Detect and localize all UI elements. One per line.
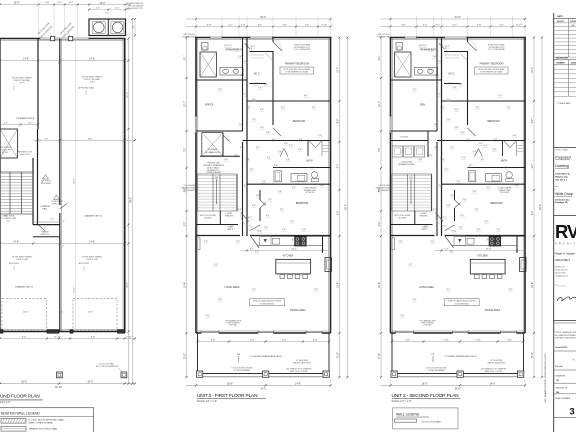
svg-text:3′-0″: 3′-0″ bbox=[455, 109, 459, 111]
svg-text:5′-8″: 5′-8″ bbox=[278, 191, 282, 193]
svg-text:3′-4″: 3′-4″ bbox=[475, 209, 479, 211]
ground plan pier 1 bbox=[51, 37, 55, 41]
svg-text:BATH: BATH bbox=[501, 160, 507, 163]
svg-text:WIRE OR CABLE RAILING SYSTEM: WIRE OR CABLE RAILING SYSTEM bbox=[253, 300, 282, 303]
svg-text:34′-0″: 34′-0″ bbox=[260, 16, 266, 19]
unit3 stair treads bbox=[198, 174, 238, 211]
unit2 left wall window bbox=[389, 116, 391, 133]
svg-text:2′-8″: 2′-8″ bbox=[204, 241, 208, 243]
ground plan bottom wall bbox=[0, 331, 125, 333]
svg-text:WALL LEGEND: WALL LEGEND bbox=[396, 412, 420, 416]
svg-text:DINING AREA: DINING AREA bbox=[485, 309, 501, 312]
svg-text:5′-8″: 5′-8″ bbox=[419, 159, 423, 161]
svg-text:12′-4″: 12′-4″ bbox=[74, 287, 76, 293]
svg-text:8′-1″: 8′-1″ bbox=[185, 56, 187, 61]
unit3 corner pantry bbox=[251, 236, 259, 248]
svg-text:19′-4″: 19′-4″ bbox=[379, 282, 381, 288]
svg-text:5′-8″: 5′-8″ bbox=[320, 185, 324, 187]
svg-text:16 O.C. STAGGERED: 16 O.C. STAGGERED bbox=[488, 48, 506, 51]
svg-text:3′-10″: 3′-10″ bbox=[321, 25, 327, 27]
svg-text:APPROVED: APPROVED bbox=[9, 262, 20, 265]
unit2 bath tub bbox=[469, 171, 476, 182]
svg-text:19′-4″: 19′-4″ bbox=[532, 282, 534, 288]
unit3 hall wall east bbox=[242, 142, 244, 236]
svg-text:NO HEADROOM: NO HEADROOM bbox=[205, 151, 220, 154]
unit2 laundry boxes bbox=[392, 146, 402, 157]
unit3 kitchen east wall bbox=[322, 236, 324, 253]
title block date table bbox=[554, 17, 576, 19]
unit3 bedroom2 door bbox=[273, 128, 281, 136]
svg-text:2′-6″: 2′-6″ bbox=[433, 56, 437, 58]
svg-text:3′-4″: 3′-4″ bbox=[473, 151, 477, 153]
svg-text:5′-8″: 5′-8″ bbox=[509, 289, 513, 291]
svg-text:2′-8″: 2′-8″ bbox=[459, 84, 463, 86]
svg-text:9′-2″: 9′-2″ bbox=[250, 249, 254, 251]
unit2 stair walls bbox=[431, 174, 433, 211]
svg-text:3′-4″: 3′-4″ bbox=[280, 209, 284, 211]
svg-text:3′-4″: 3′-4″ bbox=[299, 139, 303, 141]
svg-text:6′-4″: 6′-4″ bbox=[452, 25, 457, 27]
svg-text:APPROVED: APPROVED bbox=[79, 262, 90, 265]
foundation legend box bbox=[0, 408, 94, 432]
svg-text:6′-1″: 6′-1″ bbox=[443, 217, 447, 219]
ground plan right dim col 2 bbox=[131, 19, 133, 384]
unit3 deck bottom rail bbox=[198, 373, 330, 375]
svg-text:6′-1″: 6′-1″ bbox=[304, 95, 308, 97]
svg-text:9′-0″: 9′-0″ bbox=[91, 337, 96, 339]
svg-text:6′-8″: 6′-8″ bbox=[401, 25, 406, 27]
svg-text:2′-8″: 2′-8″ bbox=[252, 205, 256, 207]
ground plan garage mid dim row bbox=[33, 139, 135, 141]
svg-text:7′-10″: 7′-10″ bbox=[126, 337, 132, 339]
svg-text:5′-8″: 5′-8″ bbox=[515, 185, 519, 187]
svg-text:6′-1″: 6′-1″ bbox=[206, 315, 210, 317]
unit2 kitchen range bbox=[489, 237, 501, 246]
svg-text:3′-0″: 3′-0″ bbox=[476, 107, 480, 109]
svg-text:ISSUE: ISSUE bbox=[570, 21, 576, 23]
svg-text:9′-2″: 9′-2″ bbox=[445, 249, 449, 251]
svg-text:5′-8″: 5′-8″ bbox=[461, 132, 465, 134]
unit3 kitchen island bbox=[276, 259, 311, 274]
svg-text:AZEK TRIM - TYPICAL: AZEK TRIM - TYPICAL bbox=[290, 370, 308, 373]
svg-text:8′-6″: 8′-6″ bbox=[185, 188, 187, 193]
svg-text:19′-4″: 19′-4″ bbox=[185, 282, 187, 288]
svg-text:AZEK TRIM - TYPICAL: AZEK TRIM - TYPICAL bbox=[485, 370, 503, 373]
svg-text:Paradigm, OK: Paradigm, OK bbox=[555, 202, 568, 204]
ground plan mid dim row bbox=[0, 243, 125, 245]
unit3 bath door arc bbox=[244, 43, 250, 49]
svg-text:3′-4″: 3′-4″ bbox=[282, 229, 286, 231]
svg-text:4′-2″: 4′-2″ bbox=[446, 46, 450, 48]
svg-text:SCALE: 1/4″ = 1′-0″: SCALE: 1/4″ = 1′-0″ bbox=[197, 400, 217, 403]
svg-text:18′-0″: 18′-0″ bbox=[87, 382, 93, 384]
svg-text:for:: for: bbox=[555, 186, 558, 188]
svg-text:WIRE OR CABLE RAILING SYSTEM: WIRE OR CABLE RAILING SYSTEM bbox=[448, 300, 477, 303]
svg-text:3′-0″: 3′-0″ bbox=[228, 45, 232, 47]
svg-text:WOOD STUD WALL: WOOD STUD WALL bbox=[422, 420, 443, 423]
unit3 kitchen counter edge bbox=[258, 244, 323, 246]
ground plan storage dim row bbox=[0, 124, 38, 126]
unit3 wic shelf lines bbox=[251, 54, 265, 56]
unit2 stair treads bbox=[392, 174, 432, 211]
unit3 bedroom3 closet bbox=[259, 190, 261, 200]
unit2 bedroom2 west wall bbox=[467, 101, 469, 125]
svg-text:2′-8″: 2′-8″ bbox=[133, 25, 135, 29]
svg-text:ARCHITECT: ARCHITECT bbox=[555, 258, 570, 262]
svg-text:2′-6″: 2′-6″ bbox=[463, 199, 467, 201]
svg-text:5′-8″: 5′-8″ bbox=[314, 289, 318, 291]
unit3 bath/office wall bbox=[196, 79, 247, 81]
svg-text:3′-0″: 3′-0″ bbox=[451, 195, 455, 197]
svg-text:rhva@gmail.com: rhva@gmail.com bbox=[555, 275, 568, 278]
unit2 bottom dim row bbox=[381, 384, 527, 386]
unit2 bath south wall bbox=[442, 183, 526, 185]
svg-text:ACCESS: ACCESS bbox=[399, 216, 407, 219]
architect signature bbox=[557, 296, 576, 301]
svg-text:BEDROOM: BEDROOM bbox=[296, 202, 308, 205]
svg-text:PO Box 721: PO Box 721 bbox=[555, 267, 564, 269]
svg-text:6′-1″: 6′-1″ bbox=[267, 157, 271, 159]
svg-text:3′-4″: 3′-4″ bbox=[447, 99, 451, 101]
svg-text:SCALE: 1/4″ = 1′-0″: SCALE: 1/4″ = 1′-0″ bbox=[392, 400, 412, 403]
svg-text:TO BE DESIGNED: TO BE DESIGNED bbox=[260, 303, 275, 305]
svg-text:16′-2″: 16′-2″ bbox=[100, 3, 106, 5]
svg-text:143 E. White St,: 143 E. White St, bbox=[555, 173, 570, 176]
unit3 island stools bbox=[280, 275, 285, 279]
svg-text:3′-0″: 3′-0″ bbox=[485, 221, 489, 223]
svg-text:9′-8″: 9′-8″ bbox=[282, 340, 287, 342]
svg-text:34′-0″: 34′-0″ bbox=[260, 389, 266, 391]
svg-text:3′-0″: 3′-0″ bbox=[469, 165, 473, 167]
svg-text:2′-8″: 2′-8″ bbox=[459, 227, 463, 229]
svg-text:UTILITY: UTILITY bbox=[401, 137, 409, 139]
unit2 deck dim row bbox=[392, 341, 524, 343]
svg-text:2′-6″: 2′-6″ bbox=[268, 199, 272, 201]
svg-text:6′-1″: 6′-1″ bbox=[266, 215, 270, 217]
svg-text:4′-2″: 4′-2″ bbox=[256, 147, 260, 149]
svg-text:4′-2″: 4′-2″ bbox=[435, 147, 439, 149]
svg-text:6′-1″: 6′-1″ bbox=[436, 75, 440, 77]
unit2 wic closet diagonal bbox=[460, 53, 468, 61]
ground plan hall west wall bbox=[32, 158, 34, 225]
svg-text:UNIT 2: UNIT 2 bbox=[422, 229, 428, 231]
ground plan stairs bbox=[0, 172, 33, 214]
svg-text:A R C H I T E C T: A R C H I T E C T bbox=[555, 242, 576, 245]
svg-text:14′-0″: 14′-0″ bbox=[23, 312, 29, 314]
svg-text:CHECKED BY: CHECKED BY bbox=[555, 388, 568, 390]
svg-text:2′-8″: 2′-8″ bbox=[479, 143, 483, 145]
svg-text:2′-8″: 2′-8″ bbox=[439, 61, 443, 63]
svg-text:10′-7″: 10′-7″ bbox=[185, 101, 187, 107]
unit3 closet double doors bbox=[309, 141, 316, 148]
svg-text:NOTE: EXPOSED CEILING BEAM: NOTE: EXPOSED CEILING BEAM bbox=[284, 68, 311, 71]
svg-text:NOTE: EXPOSED CEILING BEAM: NOTE: EXPOSED CEILING BEAM bbox=[478, 68, 505, 71]
svg-text:2′-6″: 2′-6″ bbox=[310, 167, 314, 169]
ground plan garage door jambs bbox=[0, 330, 3, 334]
ground plan gyp note lower bbox=[54, 195, 60, 200]
svg-text:5′-8″: 5′-8″ bbox=[258, 231, 262, 233]
svg-text:UND FLOOR PLAN: UND FLOOR PLAN bbox=[0, 393, 40, 399]
unit3 right dim column inner bbox=[339, 38, 341, 378]
svg-text:4′-2″: 4′-2″ bbox=[234, 49, 238, 51]
svg-text:W/ GAP MEMBRANE: W/ GAP MEMBRANE bbox=[234, 369, 251, 372]
svg-text:14′-6″: 14′-6″ bbox=[13, 242, 19, 244]
svg-text:10′-0″: 10′-0″ bbox=[14, 3, 20, 5]
ground plan bottom dim long bbox=[0, 383, 135, 385]
svg-text:3′-0″: 3′-0″ bbox=[115, 8, 119, 10]
svg-text:3′-4″: 3′-4″ bbox=[457, 181, 461, 183]
svg-text:2′-8″: 2′-8″ bbox=[441, 159, 445, 161]
ground plan gyp note upper bbox=[43, 175, 49, 180]
svg-text:FIRE DOOR: FIRE DOOR bbox=[52, 203, 62, 205]
svg-text:DRAWN BY: DRAWN BY bbox=[555, 374, 566, 377]
svg-text:4′-2″: 4′-2″ bbox=[244, 185, 248, 187]
unit2 corner pantry bbox=[445, 236, 453, 248]
unit3 bedroom2 west wall bbox=[272, 101, 274, 125]
unit2 closet double doors bbox=[504, 141, 511, 148]
svg-text:2′-8″: 2′-8″ bbox=[230, 225, 234, 227]
unit2 exterior wall left bbox=[390, 38, 392, 334]
svg-text:Ralph H. Vaughn: Ralph H. Vaughn bbox=[555, 251, 575, 255]
svg-text:IN CEILING: IN CEILING bbox=[306, 192, 316, 194]
svg-text:5′-8″: 5′-8″ bbox=[234, 155, 238, 157]
svg-text:6′-1″: 6′-1″ bbox=[250, 169, 254, 171]
unit3 right dim column overall bbox=[347, 38, 349, 378]
unit3 closet row wall bbox=[196, 224, 238, 226]
svg-text:14′-6″: 14′-6″ bbox=[490, 383, 496, 385]
svg-text:4′-2″: 4′-2″ bbox=[423, 25, 428, 27]
svg-text:5′-0″: 5′-0″ bbox=[185, 222, 187, 227]
svg-text:SHELVES: SHELVES bbox=[420, 215, 429, 217]
unit2 right dim column inner bbox=[533, 38, 535, 378]
svg-text:COVERED FIBERGLASS DECK: COVERED FIBERGLASS DECK bbox=[250, 355, 282, 358]
svg-text:3′-4″: 3′-4″ bbox=[312, 107, 316, 109]
unit2 primary bedroom door bbox=[468, 42, 477, 51]
svg-text:8′-10″: 8′-10″ bbox=[532, 352, 534, 358]
unit2 dim extension lines bbox=[390, 16, 392, 38]
svg-text:34′-0″: 34′-0″ bbox=[455, 389, 461, 391]
svg-text:Harrah Park, NJ: Harrah Park, NJ bbox=[555, 269, 567, 272]
svg-text:13′-4″: 13′-4″ bbox=[291, 248, 296, 250]
svg-text:(TYP): (TYP) bbox=[90, 81, 95, 83]
svg-text:STORAGE: STORAGE bbox=[208, 148, 218, 151]
unit3 stair direction arrow bbox=[216, 179, 218, 204]
unit2 bath door arc bbox=[439, 43, 445, 49]
svg-text:DEN: DEN bbox=[420, 104, 425, 107]
unit3 front wall bbox=[196, 332, 331, 334]
svg-text:5′-8″: 5′-8″ bbox=[473, 191, 477, 193]
foundation legend entry 2 swatch bbox=[1, 427, 26, 432]
unit2 bedroom3 south wall bbox=[455, 235, 526, 237]
unit2 railing note box bbox=[444, 299, 479, 306]
unit2 kitchen counter edge bbox=[452, 244, 517, 246]
ground plan right wall bbox=[124, 39, 126, 334]
svg-text:3′-4″: 3′-4″ bbox=[262, 181, 266, 183]
svg-text:AND COVER (TYP): AND COVER (TYP) bbox=[127, 7, 143, 10]
svg-text:RAILING (CABLE/STD): RAILING (CABLE/STD) bbox=[488, 362, 506, 365]
svg-text:2′-6″: 2′-6″ bbox=[413, 89, 417, 91]
unit3 office south wall bbox=[196, 130, 243, 132]
svg-text:405.627.5500: 405.627.5500 bbox=[555, 273, 565, 275]
svg-text:PRIMARY BEDROOM: PRIMARY BEDROOM bbox=[480, 63, 504, 66]
svg-text:4′-2″: 4′-2″ bbox=[409, 264, 413, 266]
svg-text:(GARAGE UNIT 2): (GARAGE UNIT 2) bbox=[84, 215, 102, 218]
unit3 deck side rails bbox=[197, 333, 199, 374]
unit3 closet door left bbox=[280, 149, 284, 157]
svg-text:5′-8″: 5′-8″ bbox=[453, 231, 457, 233]
svg-text:6′-1″: 6′-1″ bbox=[248, 217, 252, 219]
svg-text:3′-4″: 3′-4″ bbox=[507, 107, 511, 109]
svg-text:3′-4″: 3′-4″ bbox=[487, 239, 491, 241]
svg-text:3: 3 bbox=[569, 407, 574, 418]
unit2 island stools bbox=[475, 275, 480, 279]
svg-text:34′-0″: 34′-0″ bbox=[455, 16, 461, 19]
unit2 primary bath toilet bbox=[396, 43, 403, 51]
title block project section top line bbox=[554, 146, 576, 148]
svg-text:3′-10″: 3′-10″ bbox=[516, 25, 522, 27]
unit3 bath south wall bbox=[247, 183, 331, 185]
svg-text:REVISIONS: REVISIONS bbox=[556, 57, 568, 59]
ground plan bottom dim row1 bbox=[0, 338, 135, 340]
unit2 exterior wall right bbox=[524, 38, 526, 334]
svg-text:2′-6″: 2′-6″ bbox=[239, 124, 243, 126]
svg-text:4′-2″: 4′-2″ bbox=[439, 185, 443, 187]
svg-text:5′-8″: 5′-8″ bbox=[224, 159, 228, 161]
svg-text:59′-2″: 59′-2″ bbox=[540, 204, 542, 210]
svg-text:2′-6″: 2′-6″ bbox=[447, 119, 451, 121]
svg-text:16 O.C. STAGGERED: 16 O.C. STAGGERED bbox=[294, 48, 312, 51]
unit3 storage no-headroom box bbox=[202, 133, 223, 156]
svg-text:UNIT 3: UNIT 3 bbox=[227, 229, 233, 231]
unit3 primary bath toilet bbox=[202, 43, 209, 51]
svg-text:3′-0″: 3′-0″ bbox=[419, 45, 423, 47]
title block logo section line bbox=[554, 215, 576, 217]
svg-text:12′-7″: 12′-7″ bbox=[532, 67, 534, 73]
unit3 storage door bbox=[222, 133, 224, 156]
svg-text:2′-8″: 2′-8″ bbox=[399, 241, 403, 243]
svg-text:DINING AREA: DINING AREA bbox=[290, 309, 306, 312]
unit3 wic walls bbox=[250, 51, 274, 53]
svg-text:5′-8″: 5′-8″ bbox=[266, 132, 270, 134]
svg-text:5′-4″: 5′-4″ bbox=[305, 25, 310, 27]
svg-text:TO BE WRAPPED IN CEDAR: TO BE WRAPPED IN CEDAR bbox=[480, 71, 503, 74]
unit2 top dimension row segments bbox=[381, 26, 527, 28]
unit2 kitchen counter wall bbox=[391, 235, 435, 237]
unit2 bath toilet bbox=[506, 172, 512, 178]
svg-text:Unit 201 & 3: Unit 201 & 3 bbox=[555, 179, 567, 182]
svg-text:3′-0″: 3′-0″ bbox=[274, 165, 278, 167]
svg-text:04/06/21: 04/06/21 bbox=[557, 20, 564, 23]
unit2 deck side rails bbox=[391, 333, 393, 374]
svg-text:8″ C.M.U. BLOCK WITH DUR-O-WAL: 8″ C.M.U. BLOCK WITH DUR-O-WALL bbox=[29, 419, 66, 422]
svg-text:9′-8″: 9′-8″ bbox=[444, 340, 449, 342]
svg-text:2′-6″: 2′-6″ bbox=[505, 167, 509, 169]
unit2 bedroom3 closet bbox=[454, 190, 456, 200]
svg-text:6′-1″: 6′-1″ bbox=[241, 75, 245, 77]
unit2 bedroom2 door bbox=[468, 128, 476, 136]
svg-text:6′-1″: 6′-1″ bbox=[445, 169, 449, 171]
unit2 utility walls bbox=[391, 140, 429, 142]
unit3 bedroom2 south wall bbox=[243, 140, 331, 142]
unit2 primary bath shower bbox=[395, 52, 412, 77]
ground plan light well right circle bbox=[111, 22, 124, 34]
svg-text:5′-8″: 5′-8″ bbox=[429, 155, 433, 157]
unit2 bath/office wall bbox=[391, 79, 442, 81]
svg-text:2′-6″: 2′-6″ bbox=[434, 124, 438, 126]
unit2 deck bottom rail bbox=[392, 373, 524, 375]
unit3 primary bedroom door bbox=[273, 42, 282, 51]
svg-text:W/ CMU: W/ CMU bbox=[2, 152, 9, 154]
svg-text:2′-6″: 2′-6″ bbox=[481, 159, 485, 161]
svg-text:7′-0″: 7′-0″ bbox=[105, 13, 109, 15]
ground plan storage room box bbox=[0, 129, 18, 158]
svg-text:6′-1″: 6′-1″ bbox=[437, 94, 441, 96]
svg-text:4′-2″: 4′-2″ bbox=[228, 25, 233, 27]
svg-text:Midwest City,: Midwest City, bbox=[555, 176, 568, 179]
svg-text:NDATION WALL LEGEND: NDATION WALL LEGEND bbox=[1, 411, 40, 415]
svg-text:9′-6″: 9′-6″ bbox=[88, 138, 92, 140]
unit2 left wall window bbox=[392, 238, 394, 250]
svg-text:3′-0″: 3′-0″ bbox=[260, 109, 264, 111]
svg-text:3′-0″: 3′-0″ bbox=[224, 45, 228, 47]
svg-text:3′-0″: 3′-0″ bbox=[290, 221, 294, 223]
svg-text:(TYP): (TYP) bbox=[20, 82, 25, 84]
unit2 exterior wall top bbox=[390, 37, 527, 39]
svg-text:2′-4″: 2′-4″ bbox=[57, 2, 62, 4]
svg-text:2′-6″: 2′-6″ bbox=[497, 229, 501, 231]
unit2 hall wall vertical bbox=[436, 38, 438, 132]
unit3 top dimension row overall bbox=[186, 18, 332, 20]
svg-text:HALL: HALL bbox=[42, 208, 48, 211]
svg-text:BEDROOM: BEDROOM bbox=[487, 120, 499, 123]
svg-text:4′-2″: 4′-2″ bbox=[447, 289, 451, 291]
svg-text:TREATED WOOD STUD WALL: TREATED WOOD STUD WALL bbox=[29, 428, 59, 431]
svg-text:18′-0″: 18′-0″ bbox=[21, 382, 27, 384]
ground plan garage center dim line bbox=[75, 39, 77, 332]
svg-text:9′-0″: 9′-0″ bbox=[22, 337, 27, 339]
unit3 entry door swing bbox=[241, 212, 249, 221]
svg-text:3′-0″: 3′-0″ bbox=[318, 135, 322, 137]
unit3 living door swing bbox=[250, 225, 260, 231]
svg-text:3rd Greater Dev,: 3rd Greater Dev, bbox=[555, 198, 570, 201]
svg-text:2′-8″: 2′-8″ bbox=[246, 159, 250, 161]
unit2 bath vanity bbox=[486, 174, 502, 182]
svg-text:5′-8″: 5′-8″ bbox=[455, 127, 459, 129]
unit2 top dimension row overall bbox=[381, 18, 527, 20]
svg-text:ACCESS: ACCESS bbox=[205, 216, 213, 219]
ground plan garage west wall bbox=[59, 39, 61, 206]
svg-text:24′-2″: 24′-2″ bbox=[74, 178, 76, 184]
svg-text:36′-10″: 36′-10″ bbox=[55, 387, 62, 389]
svg-text:LIVING AREA: LIVING AREA bbox=[419, 286, 434, 289]
unit3 bath toilet bbox=[311, 172, 317, 178]
unit3 bath tub bbox=[274, 171, 281, 182]
svg-text:(GARAGE UNIT 1): (GARAGE UNIT 1) bbox=[15, 286, 33, 289]
unit2 bedroom2 south wall bbox=[437, 140, 525, 142]
svg-text:6′-1″: 6′-1″ bbox=[242, 94, 246, 96]
svg-text:19′-4″: 19′-4″ bbox=[338, 282, 340, 288]
svg-text:3′-4″: 3′-4″ bbox=[494, 139, 498, 141]
unit2 primary bedroom note box bbox=[475, 67, 509, 74]
svg-text:LIVING AREA: LIVING AREA bbox=[225, 286, 240, 289]
svg-text:29′-2″: 29′-2″ bbox=[127, 92, 129, 98]
svg-text:4′-2″: 4′-2″ bbox=[467, 139, 471, 141]
unit2 wic walls bbox=[444, 51, 468, 53]
svg-text:6′-1″: 6′-1″ bbox=[484, 145, 488, 147]
svg-text:8′-2″: 8′-2″ bbox=[338, 119, 340, 124]
ground plan garage door dashed 2 bbox=[73, 298, 117, 330]
svg-text:6′-1″: 6′-1″ bbox=[289, 145, 293, 147]
